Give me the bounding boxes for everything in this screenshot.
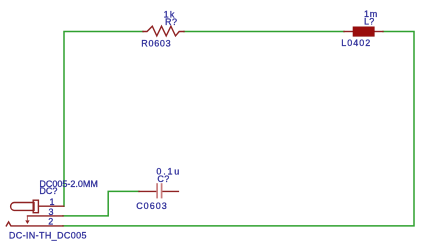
svg-text:3: 3	[49, 207, 54, 217]
svg-text:L0402: L0402	[341, 38, 371, 48]
svg-text:DC?: DC?	[39, 186, 57, 196]
svg-text:C0603: C0603	[136, 201, 168, 211]
svg-text:1: 1	[50, 197, 55, 207]
svg-text:C?: C?	[157, 174, 169, 184]
svg-text:DC-IN-TH_DC005: DC-IN-TH_DC005	[9, 230, 87, 240]
svg-text:L?: L?	[364, 17, 375, 27]
svg-text:R0603: R0603	[141, 38, 171, 48]
svg-text:R?: R?	[165, 17, 178, 27]
svg-text:2: 2	[48, 217, 53, 227]
